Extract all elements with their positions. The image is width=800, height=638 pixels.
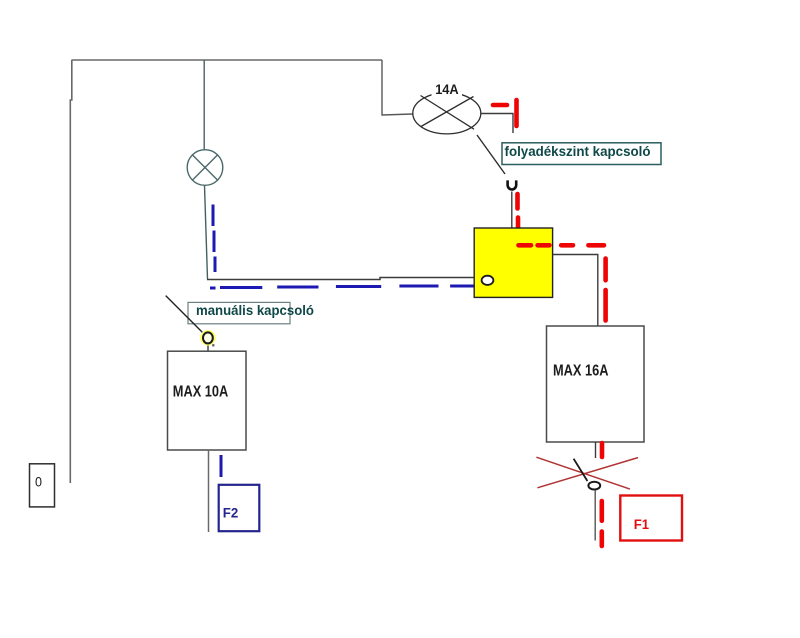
svg-text:0: 0 bbox=[35, 475, 42, 490]
red phase dashes to F1 bbox=[599, 501, 604, 546]
label 14A bbox=[432, 82, 463, 96]
svg-text:14A: 14A bbox=[435, 81, 459, 97]
label box: manualis kapcsolo bbox=[188, 302, 314, 324]
crossed-out mark (red X) bbox=[536, 457, 638, 489]
red phase dashes float switch to pump bbox=[515, 194, 520, 232]
wire: manual switch to MAX 10A bbox=[207, 346, 209, 352]
manual switch (yellow contact) bbox=[200, 330, 215, 346]
wire: float switch to pump unit bbox=[511, 192, 513, 229]
svg-text:folyadékszint kapcsoló: folyadékszint kapcsoló bbox=[505, 143, 651, 159]
breaker MAX 16A bbox=[547, 326, 645, 442]
wire: horizontal neutral run to pump unit bbox=[207, 278, 476, 280]
svg-text:F1: F1 bbox=[634, 517, 650, 532]
load F2 bbox=[219, 485, 260, 531]
red phase dashes pump to MAX 16A (horizontal) bbox=[519, 243, 605, 248]
pump unit (yellow box) bbox=[474, 228, 552, 297]
lamp 14A (pump pilot lamp) bbox=[413, 93, 481, 134]
wire: diagonal to float switch bbox=[477, 135, 505, 174]
wire: diagonal to manual switch bbox=[166, 296, 203, 333]
wire: left branch vertical bbox=[70, 60, 72, 483]
wire: contact to F1 bbox=[594, 490, 596, 541]
red phase dashes at 14A bbox=[493, 100, 517, 126]
wire: lamp to neutral node bbox=[205, 186, 208, 280]
svg-text:MAX 16A: MAX 16A bbox=[553, 363, 609, 380]
red phase dashes pump to MAX 16A (vertical) bbox=[603, 259, 608, 321]
wire: right drop to 14A lamp bbox=[382, 60, 413, 115]
svg-text:MAX 10A: MAX 10A bbox=[173, 383, 229, 400]
switch lever (crossed-out switch) bbox=[574, 459, 588, 481]
float switch contact bbox=[508, 180, 517, 189]
load F1 bbox=[620, 496, 682, 541]
wire: 14A lamp right L bbox=[481, 114, 513, 134]
breaker MAX 10A bbox=[168, 351, 247, 450]
wire: top horizontal bus bbox=[72, 59, 383, 61]
wire below MAX 10A bbox=[208, 450, 210, 532]
wire below MAX 16A bbox=[595, 442, 597, 458]
wire: drop to signal lamp bbox=[203, 60, 205, 150]
wire: pump to MAX 16A bbox=[553, 255, 598, 327]
svg-text:F2: F2 bbox=[223, 505, 239, 521]
pump terminal bbox=[482, 276, 494, 285]
switch contact bbox=[588, 482, 600, 490]
node 0 (neutral terminal) bbox=[30, 464, 55, 507]
blue dash near F2 bbox=[220, 455, 223, 477]
red dash below MAX 16A bbox=[600, 443, 605, 457]
lamp L2 (signal lamp) bbox=[187, 150, 223, 186]
svg-text:manuális kapcsoló: manuális kapcsoló bbox=[196, 302, 314, 318]
neutral blue dashed horizontal bbox=[210, 286, 480, 288]
label box: folyadekszint kapcsolo bbox=[502, 143, 661, 165]
neutral blue dashed vertical bbox=[213, 205, 215, 273]
